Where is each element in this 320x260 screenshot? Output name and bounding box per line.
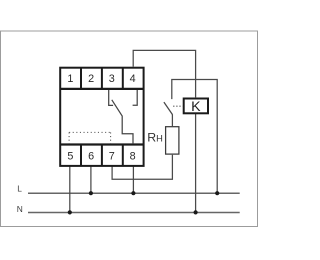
svg-text:2: 2 [88, 73, 94, 85]
svg-text:1: 1 [67, 73, 73, 85]
svg-text:H: H [156, 134, 163, 144]
svg-text:K: K [191, 99, 201, 115]
svg-text:6: 6 [88, 151, 94, 163]
svg-text:4: 4 [130, 73, 136, 85]
svg-text:N: N [17, 204, 23, 214]
svg-text:5: 5 [67, 151, 73, 163]
svg-text:3: 3 [109, 73, 115, 85]
svg-text:8: 8 [130, 151, 136, 163]
svg-text:L: L [17, 184, 22, 194]
svg-text:R: R [147, 131, 156, 145]
svg-text:7: 7 [109, 151, 115, 163]
